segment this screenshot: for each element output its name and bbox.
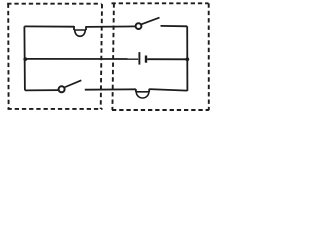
battery cell long plate bbox=[138, 52, 140, 65]
left enclosure dashed left edge bbox=[7, 4, 9, 110]
right enclosure dashed bottom edge bbox=[112, 109, 209, 111]
wire: top middle segment bbox=[86, 25, 136, 28]
wire: bottom right segment bbox=[149, 89, 187, 91]
switch S2 blade (open) bbox=[64, 80, 81, 87]
bell B1 right terminal tick bbox=[85, 26, 87, 30]
bell B2 gong (half-disc) bbox=[136, 92, 149, 98]
bell B1 gong (half-disc) bbox=[75, 30, 86, 36]
switch S1 pivot circle bbox=[136, 23, 142, 29]
wire: middle left segment bbox=[25, 58, 139, 60]
bell B2 left terminal tick bbox=[135, 89, 137, 92]
junction node left bbox=[23, 57, 27, 61]
right enclosure dashed left edge bbox=[112, 3, 114, 110]
left enclosure dashed right edge bbox=[101, 4, 102, 109]
right enclosure dashed right edge bbox=[208, 3, 210, 110]
wire: bottom middle segment bbox=[85, 88, 136, 90]
switch S1 blade (open) bbox=[141, 18, 160, 25]
bell B2 right terminal tick bbox=[148, 89, 150, 92]
right enclosure dashed top edge bbox=[112, 2, 209, 4]
wire: bottom left segment bbox=[25, 89, 59, 91]
wire: left vertical bbox=[23, 26, 26, 90]
wire: top left segment bbox=[24, 25, 74, 27]
bell B1 left terminal tick bbox=[73, 26, 75, 30]
left enclosure dashed top edge bbox=[7, 3, 101, 5]
wire: top right segment bbox=[161, 25, 188, 27]
battery cell short plate bbox=[145, 56, 147, 63]
switch S2 pivot circle bbox=[59, 86, 65, 92]
wire: right vertical bbox=[186, 26, 188, 91]
left enclosure dashed bottom edge bbox=[8, 108, 103, 110]
wire: middle right segment bbox=[147, 58, 187, 60]
junction node right bbox=[185, 57, 189, 61]
